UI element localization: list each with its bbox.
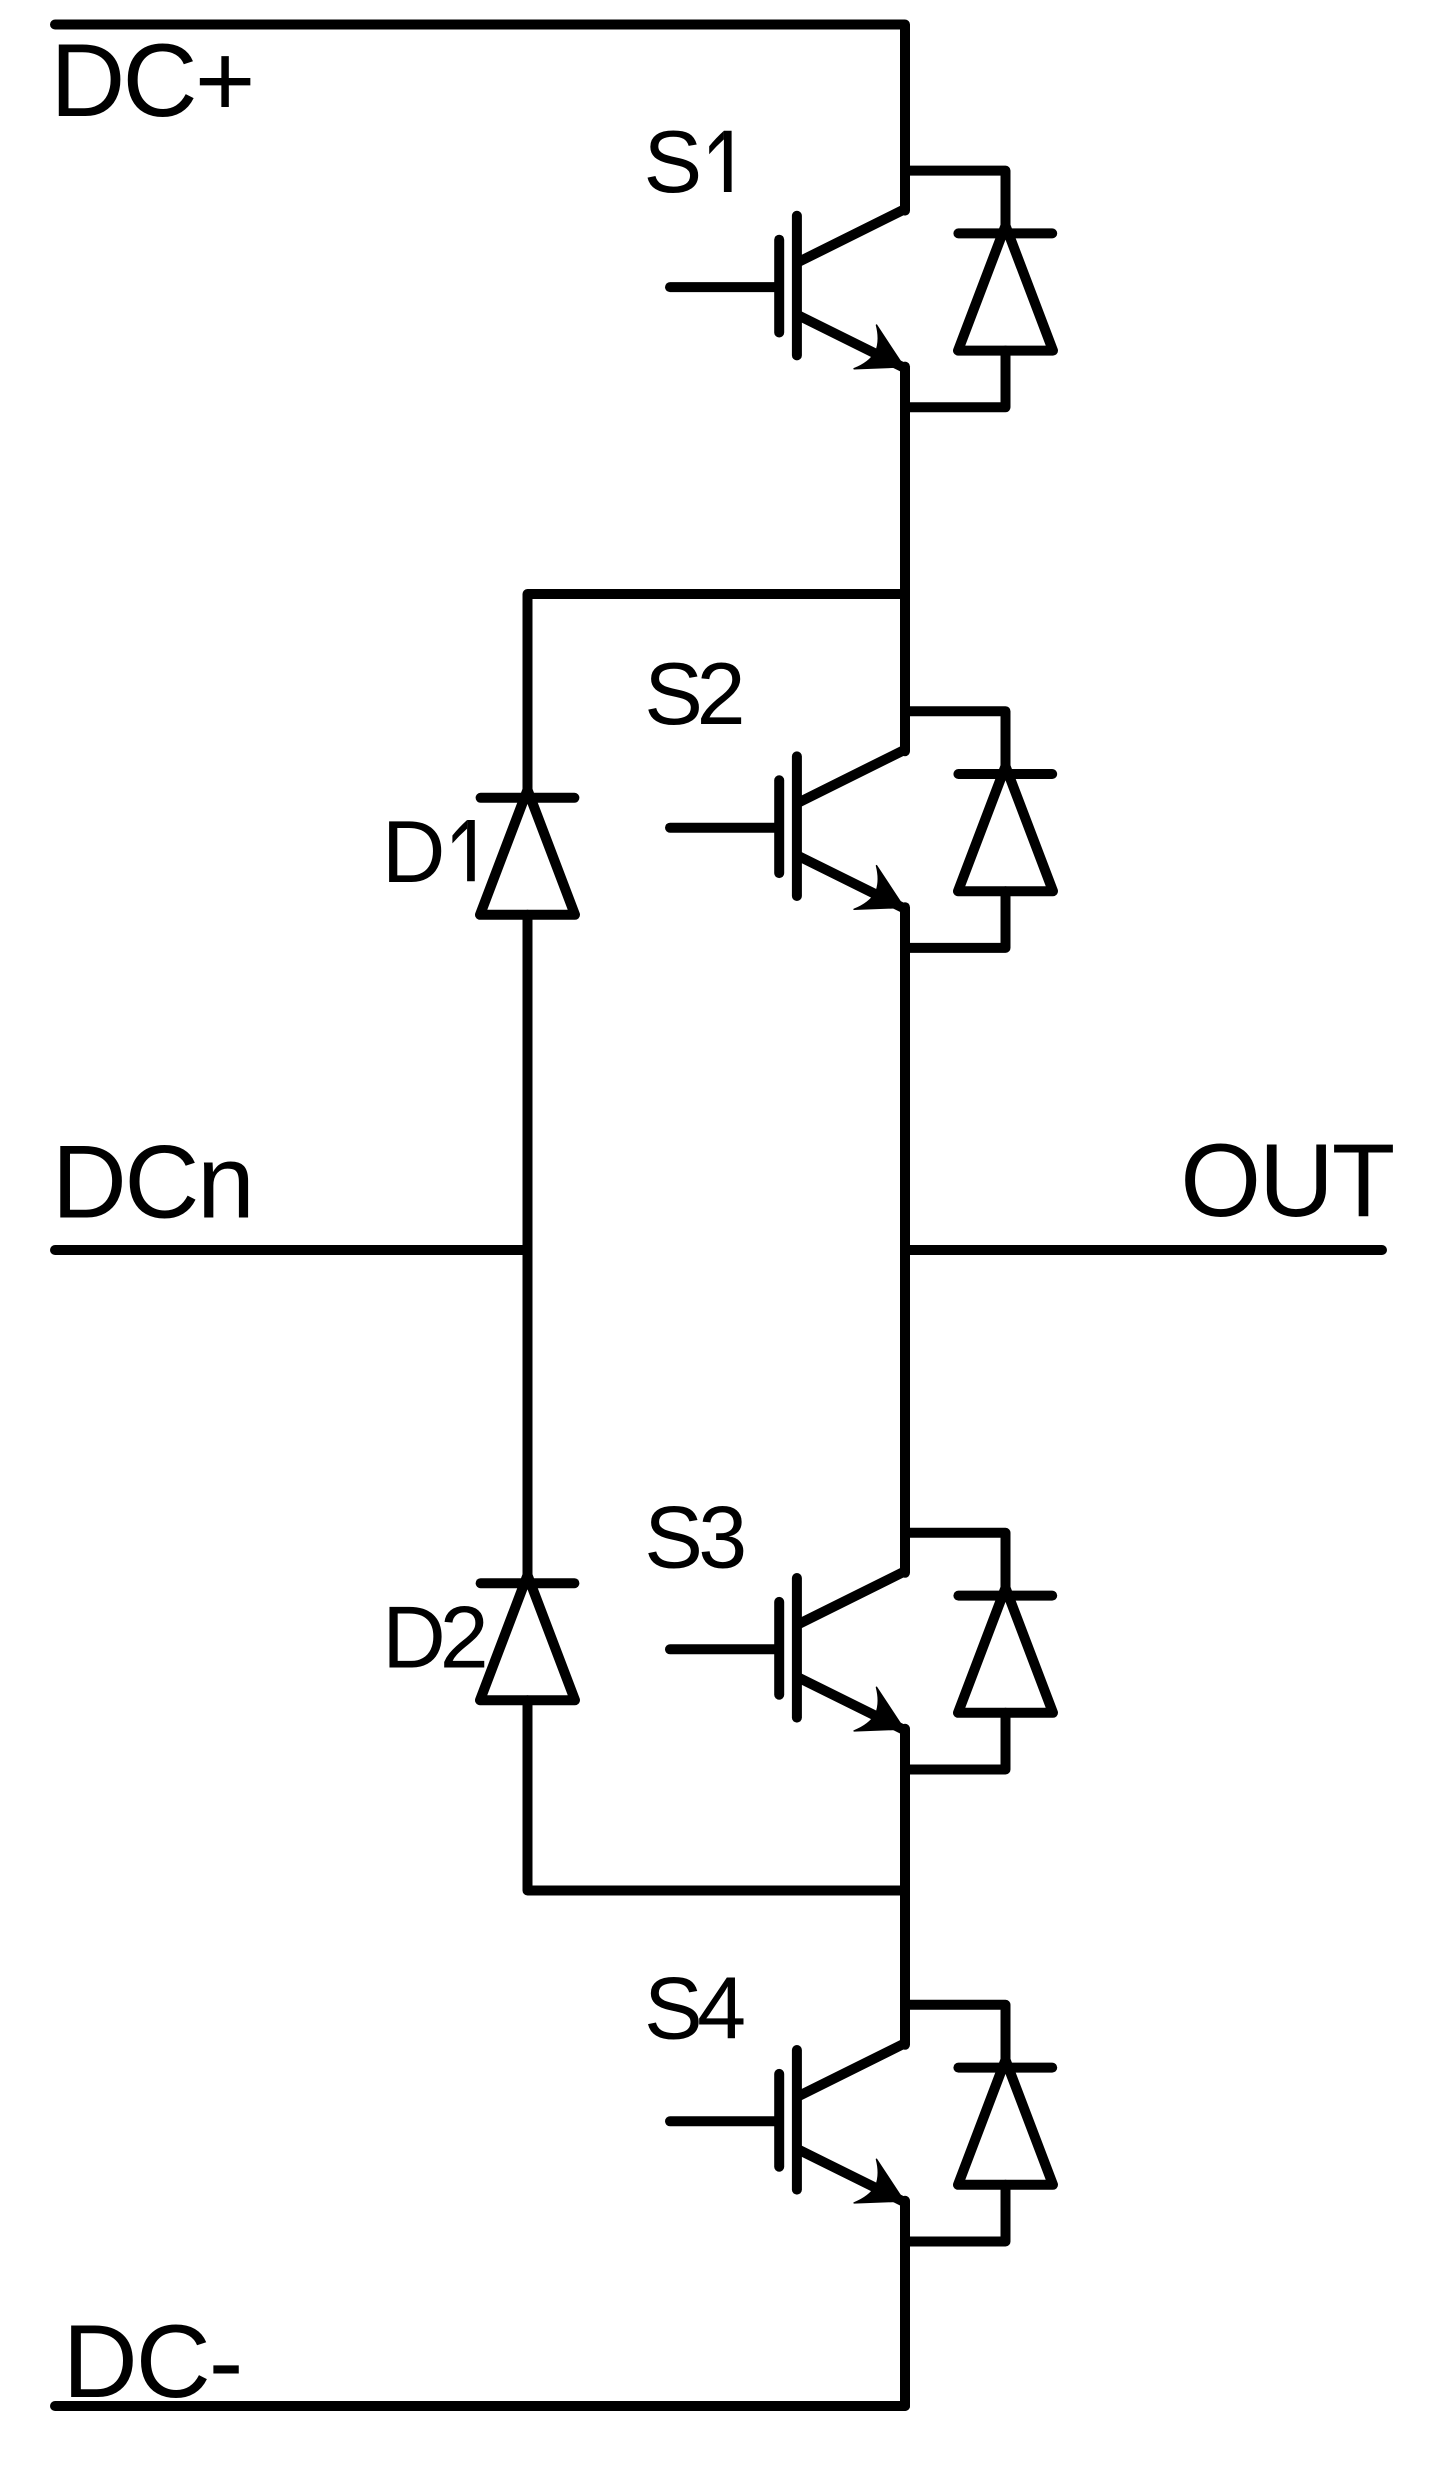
label S4	[644, 1958, 744, 2057]
wire clamp branch middle (D1 to D2 through DCn node)	[523, 915, 533, 1583]
wire S4 collector stub	[905, 2005, 1006, 2068]
wire OUT terminal	[905, 1245, 1382, 1255]
label S2	[644, 644, 741, 743]
diode S2 antiparallel freewheel	[905, 766, 1053, 948]
svg-text:S4: S4	[644, 1958, 744, 2057]
net label DC-	[63, 2304, 242, 2420]
diode D2 (clamp)	[480, 1575, 575, 1700]
svg-text:DCn: DCn	[52, 1124, 253, 1240]
wire S2 emitter to S3 collector	[900, 907, 910, 1573]
svg-text:S3: S3	[644, 1487, 744, 1586]
svg-text:D: D	[382, 802, 446, 901]
wire S1 emitter to S2 collector	[900, 367, 910, 752]
transistor S2 (IGBT)	[670, 750, 905, 910]
wire DC- bus	[55, 2401, 905, 2411]
svg-text:S: S	[644, 112, 703, 211]
diode D1 (clamp)	[480, 790, 575, 915]
label S1	[644, 112, 732, 211]
label S3	[644, 1487, 744, 1586]
net label DC+	[50, 23, 253, 139]
svg-text:D2: D2	[382, 1588, 485, 1687]
label D1	[382, 802, 475, 901]
wire S1 collector stub	[905, 171, 1006, 234]
wire S3 collector stub	[905, 1533, 1006, 1596]
diode S1 antiparallel freewheel	[905, 226, 1053, 408]
wire S2 collector stub	[905, 711, 1006, 774]
wire S4 emitter to DC- bus	[900, 2201, 910, 2406]
wire S3 emitter to S4 collector	[900, 1729, 910, 2045]
label D2	[382, 1588, 485, 1687]
wire DC+ bus	[55, 25, 905, 211]
diode S4 antiparallel freewheel	[905, 2060, 1053, 2242]
svg-text:DC+: DC+	[50, 23, 253, 139]
net label OUT	[1180, 1123, 1393, 1239]
transistor S1 (IGBT)	[670, 209, 905, 369]
net label DCn	[52, 1124, 253, 1240]
svg-text:OUT: OUT	[1180, 1123, 1393, 1239]
wire clamp branch bottom (D2 to S3/S4 node)	[528, 1700, 906, 1890]
wire clamp branch top (S1/S2 node to D1)	[528, 594, 906, 798]
wire DCn terminal	[55, 1245, 528, 1255]
diode S3 antiparallel freewheel	[905, 1588, 1053, 1770]
svg-text:S2: S2	[644, 644, 741, 743]
transistor S4 (IGBT)	[670, 2043, 905, 2203]
transistor S3 (IGBT)	[670, 1571, 905, 1731]
